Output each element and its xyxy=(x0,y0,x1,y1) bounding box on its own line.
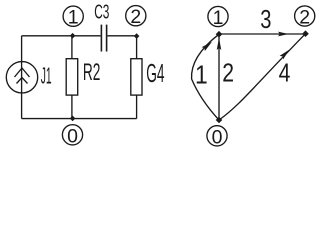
svg-text:C3: C3 xyxy=(94,0,109,23)
wire G4 branch bottom xyxy=(136,95,138,119)
edge 1 (curved 0 to 1) xyxy=(192,34,219,120)
graph node 0 circle xyxy=(207,126,227,146)
node 2 circle (circuit) xyxy=(126,6,146,26)
J1 double arrowhead chevrons xyxy=(15,68,30,84)
svg-text:3: 3 xyxy=(260,4,271,34)
svg-text:1: 1 xyxy=(195,59,208,89)
wire bottom xyxy=(22,118,137,120)
graph node 1 circle xyxy=(208,6,228,26)
node 1 circle (circuit) xyxy=(63,6,83,26)
current source J1 xyxy=(6,36,37,119)
wire R2 branch top xyxy=(71,36,73,59)
svg-text:0: 0 xyxy=(212,126,223,148)
svg-text:G4: G4 xyxy=(146,60,164,88)
graph node 2 circle xyxy=(295,6,315,26)
junction dot node1 xyxy=(70,33,76,39)
graph vertex 0 xyxy=(216,117,223,124)
conductance G4 xyxy=(131,59,142,95)
resistor R2 xyxy=(66,59,78,95)
graph vertex 1 xyxy=(216,31,223,38)
junction dot node2 xyxy=(134,33,140,39)
wire G4 branch top xyxy=(136,36,138,59)
junction dot node0 xyxy=(70,116,76,122)
edge 4 (diagonal 0 to 2) xyxy=(219,34,306,120)
wire top right segment xyxy=(107,35,136,37)
wire top left segment xyxy=(22,35,101,37)
svg-text:2: 2 xyxy=(222,58,234,88)
edge 3 (horizontal 1 to 2) xyxy=(219,33,306,35)
edge 2 (vertical 0 to 1) xyxy=(218,34,220,120)
svg-text:1: 1 xyxy=(68,7,79,29)
capacitor C3 xyxy=(101,25,106,52)
svg-text:1: 1 xyxy=(213,7,224,29)
graph vertex 2 xyxy=(302,30,309,37)
svg-text:4: 4 xyxy=(279,58,291,88)
svg-text:0: 0 xyxy=(67,125,78,147)
svg-text:2: 2 xyxy=(130,6,141,28)
wire R2 branch bottom xyxy=(71,95,73,119)
svg-text:2: 2 xyxy=(299,7,310,29)
node 0 circle (circuit) xyxy=(62,125,82,145)
wire left rail / J1 arrow shaft xyxy=(21,36,23,119)
svg-text:R2: R2 xyxy=(83,59,101,86)
svg-text:J1: J1 xyxy=(41,62,52,88)
